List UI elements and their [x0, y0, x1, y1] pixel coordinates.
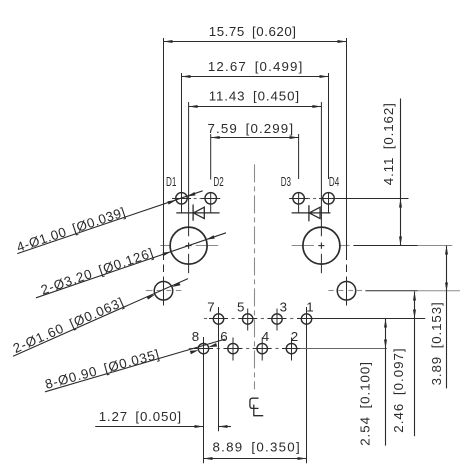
extension line D1 (12.67 left) — [181, 73, 183, 213]
big hole left center cross — [186, 245, 192, 247]
dimension 1.27 line — [95, 426, 203, 428]
dimension 11.43 line — [189, 106, 322, 108]
vertical centerline (main axis) — [254, 164, 256, 389]
svg-text:2: 2 — [291, 329, 298, 344]
centerline symbol CL — [250, 398, 263, 416]
extension line medium-right (15.75 right) — [346, 38, 348, 260]
svg-text:8: 8 — [192, 329, 199, 344]
medium hole right (O1.60) — [337, 282, 356, 301]
svg-text:4: 4 — [262, 329, 269, 344]
svg-text:2.46 [0.097]: 2.46 [0.097] — [391, 347, 406, 432]
svg-text:D4: D4 — [329, 175, 339, 189]
pin 6 hole — [228, 343, 238, 353]
extension line D2 (7.59 left) — [210, 134, 212, 180]
svg-text:4.11 [0.162]: 4.11 [0.162] — [381, 102, 396, 185]
pin 5 vertical centerline — [247, 309, 249, 331]
leader 8-O0.90 (pin holes) line — [45, 339, 225, 392]
svg-text:3.89 [0.153]: 3.89 [0.153] — [429, 301, 444, 385]
pin 7 vertical centerline / ext — [218, 307, 220, 431]
hole D4 — [323, 193, 335, 205]
svg-text:D2: D2 — [213, 175, 223, 189]
dimension 8.89 line — [204, 458, 307, 460]
diode symbol left cathode bar — [192, 205, 194, 221]
big hole right center cross — [318, 245, 324, 247]
svg-text:3: 3 — [280, 299, 287, 314]
LED row centerline — [194, 198, 197, 200]
svg-text:1.27 [0.050]: 1.27 [0.050] — [99, 409, 182, 424]
extension line big-circle row (right) — [353, 245, 417, 247]
diode symbol left triangle — [193, 207, 204, 218]
dimension 2.46 line — [414, 292, 416, 319]
dimension 2.54 line — [385, 319, 387, 349]
extension line pin row1 (right) — [311, 318, 425, 320]
extension line medium-left (15.75 left) — [163, 38, 165, 260]
pin 2 hole — [286, 343, 296, 353]
pin 8 vertical centerline / ext — [203, 337, 205, 463]
svg-text:7.59 [0.299]: 7.59 [0.299] — [208, 121, 295, 136]
big-circle left horizontal centerline — [160, 245, 171, 247]
pin 1 hole — [301, 314, 311, 324]
extension line D4 (12.67 right) — [328, 73, 330, 179]
leader 2-O1.60 (medium holes) line — [13, 279, 188, 357]
pin 2 vertical centerline — [291, 338, 293, 361]
extension line D3 (7.59 right) — [298, 134, 300, 179]
dimension 12.67 line — [182, 76, 329, 78]
svg-text:15.75 [0.620]: 15.75 [0.620] — [209, 24, 297, 39]
medium hole left (O1.60) — [154, 282, 173, 301]
pin 4 hole — [257, 343, 267, 353]
pin 5 hole — [243, 314, 253, 324]
svg-text:11.43 [0.450]: 11.43 [0.450] — [209, 89, 300, 104]
svg-text:8.89 [0.350]: 8.89 [0.350] — [213, 439, 301, 454]
pin row 2 centerline — [189, 348, 193, 350]
extension line pin row2 (right) — [300, 348, 387, 350]
big hole right (O3.20) — [303, 227, 340, 264]
diode symbol left (anode line) — [176, 212, 219, 214]
pin 4 vertical centerline — [261, 338, 263, 361]
svg-text:2.54 [0.100]: 2.54 [0.100] — [357, 361, 372, 446]
leader 2-O3.20 (big holes) line — [36, 233, 226, 298]
svg-text:1: 1 — [306, 299, 313, 314]
svg-text:7: 7 — [207, 299, 214, 314]
extension line medium row (right) — [365, 290, 417, 292]
dimension 15.75 line — [164, 41, 347, 43]
dimension 7.59 line — [211, 137, 299, 139]
medium-circle left horizontal centerline — [146, 290, 153, 292]
big-circle right horizontal centerline — [292, 245, 314, 247]
svg-text:12.67 [0.499]: 12.67 [0.499] — [208, 59, 304, 74]
pin 3 hole — [272, 314, 282, 324]
extension line big-right (11.43 right) — [320, 102, 322, 236]
diode symbol right (anode line) — [292, 212, 331, 214]
extension line big-left (11.43 left) — [188, 102, 190, 236]
diode symbol right triangle — [309, 207, 320, 218]
svg-text:6: 6 — [220, 329, 227, 344]
pin 1 vertical centerline / ext — [306, 307, 308, 463]
leader 4-O1.00 (holes D1-D4) line — [17, 191, 202, 254]
pin row 1 centerline — [232, 318, 235, 320]
svg-text:5: 5 — [237, 299, 244, 314]
pin 6 vertical centerline — [232, 338, 234, 361]
medium-circle right horizontal centerline — [328, 290, 333, 292]
pin 7 hole — [213, 314, 223, 324]
pin 3 vertical centerline — [276, 309, 278, 331]
pin 8 hole — [198, 343, 208, 353]
dimension 4.11 line — [400, 99, 402, 199]
hole D1 — [176, 193, 188, 205]
big hole left (O3.20) — [170, 227, 207, 264]
diode symbol right cathode bar — [308, 205, 310, 221]
dimension 3.89 line — [446, 246, 448, 292]
hole D3 — [293, 193, 305, 205]
extension line LED row (right) — [320, 198, 409, 200]
svg-text:D1: D1 — [166, 175, 176, 189]
svg-text:D3: D3 — [281, 175, 291, 189]
hole D2 — [205, 193, 217, 205]
